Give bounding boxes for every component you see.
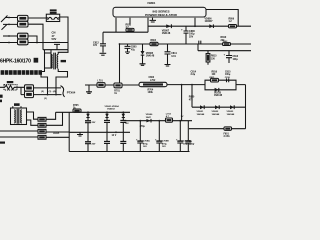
relay FB601 [46, 14, 59, 21]
wire input to R603 [3, 35, 18, 37]
wire R602 down to loop [28, 24, 43, 42]
svg-text:16V: 16V [125, 123, 129, 125]
svg-text:1N4148: 1N4148 [214, 94, 223, 97]
edge mark 1 [0, 95, 3, 98]
svg-text:1N4148: 1N4148 [146, 55, 155, 58]
inductor L901 label [7, 81, 14, 83]
svg-text:25V: 25V [189, 35, 194, 38]
svg-text:115V: 115V [189, 144, 195, 146]
wire to opto loop [167, 84, 205, 86]
diode VD903 [122, 114, 126, 117]
resistor R603 [18, 33, 29, 39]
rail secondary 2 [198, 44, 251, 51]
bus secondary top [148, 25, 251, 27]
svg-text:470μ: 470μ [143, 142, 149, 145]
capacitor C901 [87, 112, 89, 151]
capacitor C816 [227, 78, 229, 82]
svg-text:AF1B: AF1B [53, 132, 60, 135]
wire left rail lower [0, 131, 38, 137]
RC loop [205, 80, 246, 90]
resistor R602 [18, 21, 29, 27]
capacitor C811 [165, 44, 171, 66]
resistor R705 [73, 109, 81, 112]
capacitor C805 [125, 44, 131, 54]
diode VD805 [142, 44, 144, 51]
resistor R808 [223, 43, 231, 46]
svg-text:100μ: 100μ [233, 59, 239, 61]
transformer T902 core [54, 53, 56, 70]
resistor R815 [207, 51, 209, 65]
label L702 [61, 60, 66, 62]
diode VD806 [212, 24, 214, 28]
svg-text:25V: 25V [92, 143, 96, 145]
transformer T901 label [14, 103, 20, 106]
svg-text:1N4007: 1N4007 [205, 20, 214, 23]
svg-text:C708A: C708A [143, 140, 150, 143]
wire vertical to diode bus [191, 85, 193, 108]
wire AC line 1 [1, 16, 17, 23]
svg-text:C816: C816 [225, 77, 231, 79]
wire connector out [46, 112, 69, 137]
wire box output top [206, 10, 238, 27]
svg-text:FB801: FB801 [148, 1, 156, 5]
wire box pin down [194, 18, 196, 26]
svg-text:12 V: 12 V [112, 135, 117, 137]
svg-text:16V: 16V [162, 146, 166, 148]
svg-text:C708B: C708B [162, 141, 169, 143]
svg-text:47μ: 47μ [131, 49, 136, 52]
wire to connector pin 1 [34, 87, 62, 89]
transformer T902 windings [51, 54, 52, 68]
svg-text:100μ: 100μ [225, 74, 231, 76]
wire vertical to low bus [181, 85, 183, 121]
diode VD923 [233, 105, 235, 109]
svg-text:+: + [181, 27, 183, 31]
wire primary loop [43, 43, 68, 50]
resistor R818 [211, 78, 219, 82]
diode VD810 [218, 88, 220, 92]
wire vertical bus [119, 44, 121, 83]
transformer T901 core [17, 109, 19, 124]
wire R601 to relay [28, 17, 46, 19]
diode VD807 [170, 24, 172, 28]
svg-text:1N4?: 1N4? [146, 116, 152, 119]
svg-text:VD921: VD921 [197, 111, 204, 113]
svg-text:C815: C815 [225, 71, 231, 73]
node contact b [8, 24, 10, 26]
svg-text:F901: F901 [224, 133, 230, 135]
bus bottom [69, 151, 189, 153]
svg-text:C814: C814 [191, 70, 197, 73]
wire L901 to boxes [17, 87, 25, 94]
diode VD922 [218, 105, 220, 109]
svg-text:POWER REGULATOR: POWER REGULATOR [145, 13, 178, 17]
edge mark 0 [0, 142, 5, 144]
svg-text:50V: 50V [52, 37, 57, 41]
wire AC line 2 [2, 24, 18, 29]
svg-text:R701: R701 [114, 90, 120, 92]
wire T901 to connector [27, 112, 39, 125]
svg-text:R809: R809 [229, 18, 235, 20]
svg-text:16V: 16V [143, 146, 147, 148]
svg-text:(1): (1) [49, 91, 52, 93]
diode VD902 [105, 114, 109, 117]
resistor R604 [18, 39, 29, 45]
relay FB601 label [50, 9, 57, 11]
capacitor C902 [106, 112, 108, 151]
svg-text:3.3μ: 3.3μ [191, 74, 196, 76]
capacitor C813 [226, 51, 232, 63]
inductor L701 [97, 83, 105, 88]
svg-text:1N4002: 1N4002 [107, 108, 115, 111]
wire R603 to vertical [28, 36, 37, 43]
diode VD901 [86, 114, 90, 117]
svg-text:R815: R815 [211, 56, 217, 58]
inductor L703 [166, 118, 173, 122]
svg-text:VD901-VD904: VD901-VD904 [105, 105, 120, 108]
transformer T902 primary loop [45, 50, 52, 53]
svg-text:(3): (3) [44, 98, 47, 100]
capacitor C708A [139, 121, 141, 152]
ground G1 [150, 18, 157, 22]
wire feedback line [85, 84, 139, 86]
resistor R804 [150, 42, 158, 45]
svg-text:VD923: VD923 [227, 111, 234, 113]
capacitor C807 on rail [199, 41, 201, 45]
node contact a [8, 17, 10, 19]
capacitor C710 [187, 121, 189, 152]
svg-text:PTX04: PTX04 [67, 90, 76, 94]
wire transformer secondary top [58, 50, 68, 55]
capacitor C709 [179, 121, 181, 152]
inductor L901 [4, 85, 17, 90]
ground G3 [77, 132, 83, 136]
svg-text:470μ: 470μ [162, 142, 168, 145]
svg-text:472: 472 [93, 44, 98, 47]
svg-text:25V: 25V [92, 122, 96, 124]
svg-text:C813: C813 [233, 56, 239, 58]
main secondary rail [120, 43, 252, 45]
svg-text:VD922: VD922 [212, 111, 219, 113]
svg-text:VD810: VD810 [214, 92, 222, 94]
resistor R811 [126, 28, 134, 31]
connector XS901 pin4 [38, 135, 46, 139]
transformer T901 windings [14, 110, 15, 123]
svg-text:R804: R804 [151, 39, 157, 42]
title text line 2 blobs [1, 70, 42, 75]
svg-text:1N4148: 1N4148 [197, 113, 205, 116]
ground G2 [86, 85, 92, 93]
resistor R902 [25, 91, 34, 97]
bus mid low [69, 131, 130, 133]
svg-text:R816: R816 [212, 71, 218, 73]
resistor R704 [139, 82, 167, 86]
wire under box [103, 18, 148, 32]
wire output loop [189, 85, 246, 129]
wire input to R604 [0, 42, 18, 44]
connector XS901 pin3 [38, 129, 46, 133]
wire vertical left bus [68, 112, 70, 151]
svg-text:1N4148: 1N4148 [212, 113, 220, 116]
svg-text:(2): (2) [41, 91, 44, 93]
capacitor C903 [122, 112, 124, 151]
edge mark 2 [0, 100, 2, 103]
svg-text:1N4148: 1N4148 [227, 113, 235, 116]
svg-text:0.01: 0.01 [171, 55, 176, 58]
svg-text:C806: C806 [149, 77, 155, 79]
capacitor C708B [158, 121, 160, 152]
diode bus [192, 106, 246, 108]
bus low right [123, 120, 192, 122]
regulator U801 [113, 7, 206, 17]
svg-text:L702: L702 [150, 80, 156, 82]
bus secondary low [56, 111, 130, 113]
svg-text:100k: 100k [148, 91, 154, 94]
svg-text:VD806: VD806 [205, 18, 213, 20]
fuse F901 [224, 127, 232, 130]
wire R604 to capacitor CN [28, 42, 54, 44]
connector XS901 pin1 [38, 117, 46, 121]
transformer T901 frame [11, 108, 27, 125]
resistor R901 [25, 85, 34, 91]
svg-text:(4): (4) [53, 90, 56, 93]
capacitor C601 [54, 42, 60, 49]
diode VD906 [150, 119, 152, 123]
diode VD921 [203, 105, 205, 109]
connector XS901 pin2 [38, 123, 46, 127]
capacitor C808 [184, 26, 189, 44]
resistor R701 [114, 83, 122, 88]
svg-text:3.15A: 3.15A [224, 135, 230, 138]
svg-text:1N4148: 1N4148 [162, 32, 171, 35]
resistor R601 [18, 15, 29, 21]
wire relay to transformer loop [60, 17, 68, 43]
resistor R809 [229, 25, 237, 28]
svg-text:6HPK-160/170: 6HPK-160/170 [0, 59, 31, 65]
wire transformer pedestal [41, 68, 68, 95]
svg-text:C805: C805 [131, 47, 137, 49]
connector bracket [61, 86, 65, 97]
svg-text:R820: R820 [189, 97, 195, 99]
svg-text:100μ: 100μ [183, 143, 189, 145]
wire to connector pin 2 [34, 94, 62, 96]
